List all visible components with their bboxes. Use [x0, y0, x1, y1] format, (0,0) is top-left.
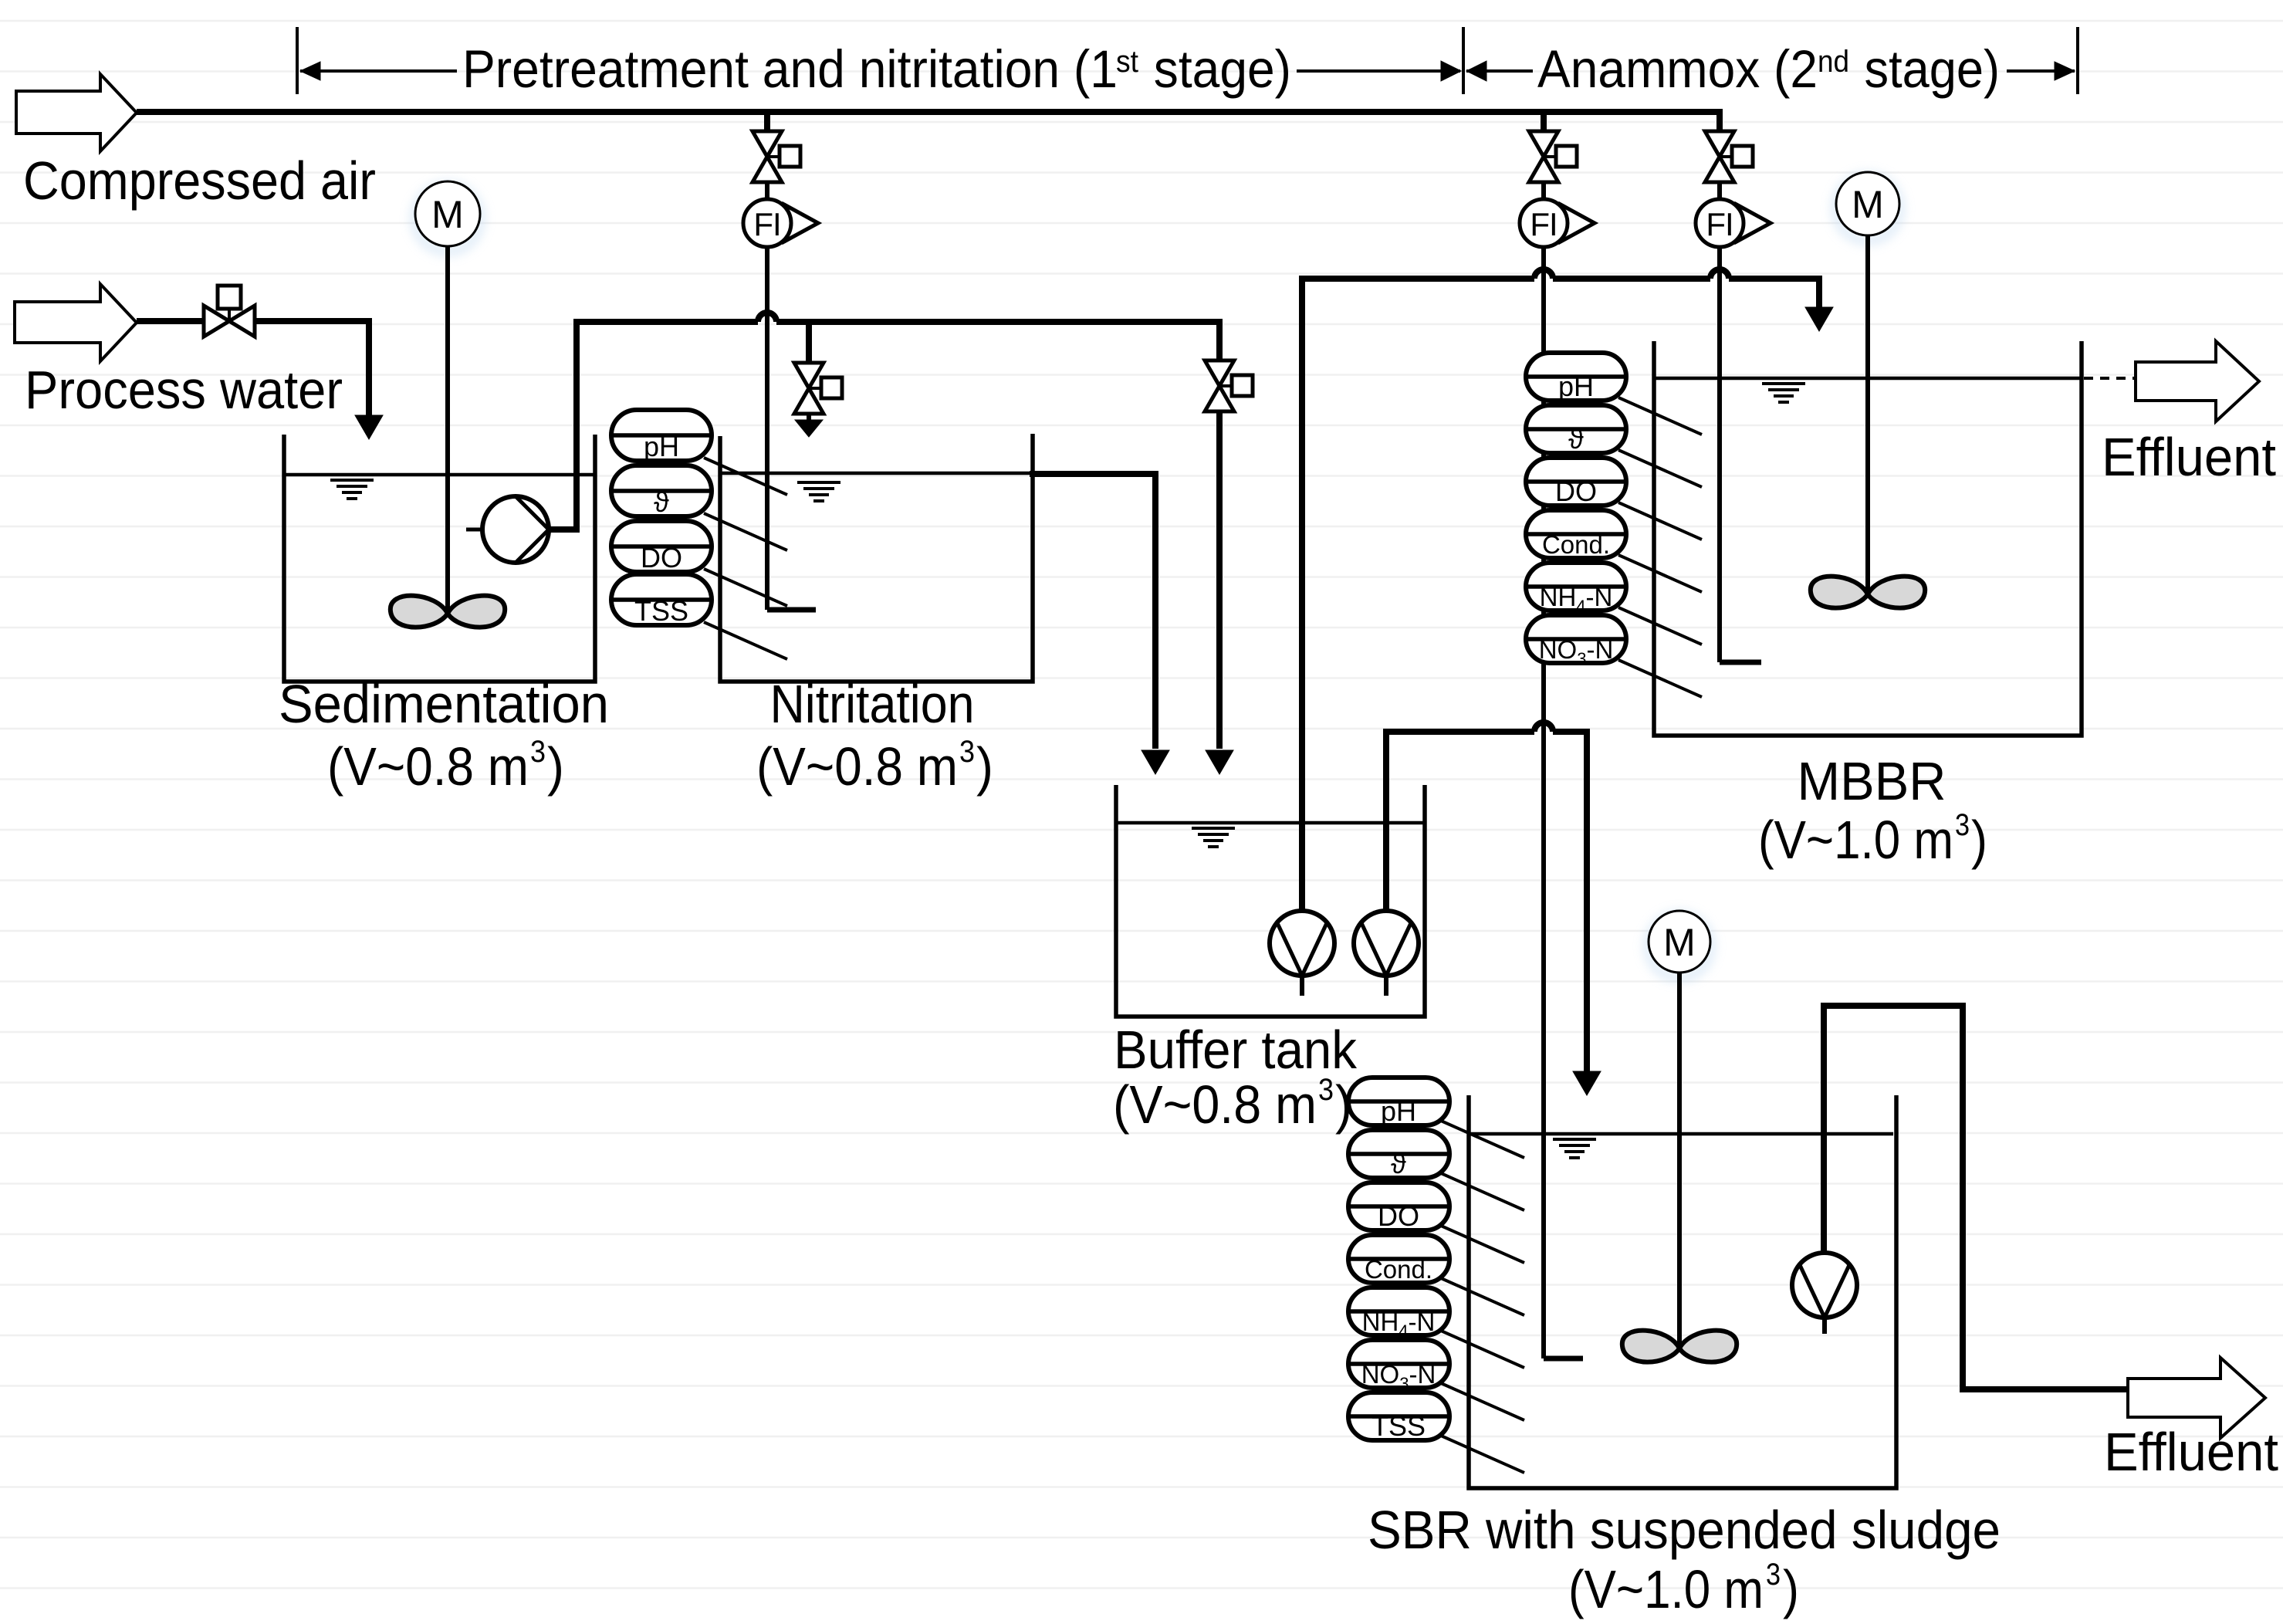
wire valve V5 down to buffer — [1216, 411, 1223, 749]
impeller mixer M3 — [1622, 1331, 1737, 1362]
svg-text:DO: DO — [641, 542, 682, 573]
svg-text:stage): stage) — [1851, 39, 2000, 99]
svg-text:M: M — [1663, 921, 1696, 964]
impeller mixer M1 — [391, 596, 505, 628]
svg-text:Effluent: Effluent — [2104, 1422, 2278, 1482]
flow indicator FI2 — [1561, 205, 1595, 242]
wire buffer pump2 riser — [1383, 735, 1389, 911]
svg-text:ϑ: ϑ — [654, 486, 669, 518]
wire valve V1 to FI1 — [765, 182, 769, 200]
svg-text:TSS: TSS — [1371, 1410, 1426, 1442]
svg-text:Cond.: Cond. — [1365, 1255, 1432, 1284]
valve V6 process water — [204, 306, 229, 337]
svg-text:ϑ: ϑ — [1568, 423, 1584, 455]
arrow into sedimentation tank — [355, 415, 383, 439]
process water inlet block arrow — [15, 284, 137, 361]
svg-text:(V~0.8 m: (V~0.8 m — [1113, 1074, 1317, 1135]
pump P3 buffer SBR-feed — [1354, 911, 1419, 976]
tank buffer water symbol — [1192, 827, 1235, 830]
effluent outlet block arrow SBR — [2128, 1358, 2265, 1438]
wire valve V6 to sedimentation — [255, 318, 372, 324]
wire valve V3 to FI3 — [1717, 182, 1722, 200]
wire SBR feed line — [1383, 729, 1534, 735]
tank nitritation walls — [720, 434, 1033, 682]
tank sedimentation water symbol — [330, 479, 374, 482]
arrow into MBBR tank — [1805, 307, 1833, 331]
svg-text:Anammox (2: Anammox (2 — [1537, 39, 1818, 99]
wire buffer pump1 feed riser — [1299, 279, 1305, 911]
flow indicator FI1 — [784, 205, 818, 242]
compressed air inlet block arrow — [16, 74, 137, 151]
sensor capsule stack nitritation (pH, theta, DO, TSS) — [611, 410, 712, 461]
wire pump P2 outlet stub — [1300, 976, 1304, 996]
shaft mixer M2 — [1865, 235, 1870, 594]
wire MBBR feed line — [1299, 276, 1534, 282]
tank buffer walls — [1116, 785, 1425, 1017]
pump P1 sedimentation — [482, 496, 549, 563]
svg-text:NH4-N: NH4-N — [1362, 1308, 1436, 1341]
svg-text:3: 3 — [959, 735, 975, 769]
svg-text:NO3-N: NO3-N — [1361, 1360, 1436, 1393]
wire SBR pump riser and crossover — [1821, 1009, 1827, 1253]
svg-text:): ) — [1971, 810, 1987, 870]
svg-text:Cond.: Cond. — [1542, 530, 1610, 559]
svg-text:Buffer tank: Buffer tank — [1114, 1020, 1358, 1080]
valve V4 nitritation feed — [794, 363, 824, 388]
sensor connection diagonals nitritation — [704, 458, 787, 495]
svg-text:M: M — [1852, 183, 1884, 226]
impeller mixer M2 — [1811, 577, 1925, 608]
wire air branch1 drop to valve — [764, 112, 770, 131]
tank sedimentation water line — [284, 473, 595, 477]
wire transfer line to nitritation and buffer — [577, 319, 758, 325]
motor M1 sedimentation — [414, 185, 481, 252]
tank nitritation water line — [720, 472, 1033, 475]
tank buffer water line — [1116, 821, 1425, 825]
svg-text:pH: pH — [1381, 1095, 1416, 1127]
svg-text:(V~1.0 m: (V~1.0 m — [1758, 810, 1953, 870]
wire compressed air corner down to valve V3 — [1716, 112, 1723, 131]
tank MBBR walls — [1654, 341, 2082, 736]
svg-text:FI: FI — [1530, 206, 1557, 242]
sensor connection diagonals SBR — [1441, 1121, 1524, 1158]
pump P4 SBR decant — [1792, 1253, 1857, 1318]
svg-text:pH: pH — [1558, 370, 1594, 402]
wire MBBR effluent dashed — [2084, 377, 2136, 380]
tank SBR water line — [1469, 1132, 1893, 1136]
sensor capsule stack SBR (pH, theta, DO, Cond., NH4-N, NO3-N, TSS) — [1348, 1078, 1449, 1125]
svg-text:M: M — [431, 193, 464, 236]
wire FI3 down into MBBR sparger — [1717, 246, 1722, 662]
valve V2 air SBR — [1529, 131, 1558, 157]
svg-text:FI: FI — [753, 206, 780, 242]
flow indicator FI3 — [1737, 205, 1771, 242]
svg-text:(V~0.8 m: (V~0.8 m — [327, 736, 529, 797]
wire pump P1 discharge riser — [549, 526, 580, 533]
arrow into buffer tank from V5 — [1206, 750, 1233, 774]
svg-text:DO: DO — [1378, 1200, 1419, 1232]
dimension tick middle — [1462, 27, 1465, 94]
wire pump P3 outlet stub — [1384, 976, 1388, 996]
tank MBBR water symbol — [1762, 382, 1805, 385]
wire compressed air main header — [137, 109, 1723, 115]
dimension tick right — [2076, 27, 2079, 94]
shaft mixer M1 — [445, 246, 450, 614]
junction bump MBBR feed over FI3 line — [1710, 269, 1729, 279]
svg-text:TSS: TSS — [634, 595, 688, 627]
junction bump SBR feed over FI2 line — [1534, 722, 1553, 732]
valve V5 buffer feed — [1205, 360, 1234, 386]
tank SBR water symbol — [1553, 1138, 1596, 1141]
tank nitritation water symbol — [797, 481, 840, 484]
dimension line stage1 right segment with arrowhead — [1297, 69, 1460, 73]
svg-text:(V~1.0 m: (V~1.0 m — [1568, 1559, 1764, 1619]
svg-text:3: 3 — [1318, 1073, 1334, 1107]
svg-text:NH4-N: NH4-N — [1540, 583, 1613, 616]
tank sedimentation walls — [284, 435, 595, 682]
svg-text:Compressed air: Compressed air — [23, 151, 376, 211]
svg-text:Process water: Process water — [25, 360, 343, 420]
svg-text:3: 3 — [530, 735, 546, 769]
wire FI2 down to SBR sparger — [1541, 246, 1546, 1358]
pump P2 buffer MBBR-feed — [1270, 911, 1334, 976]
svg-text:Pretreatment and nitritation (: Pretreatment and nitritation (1 — [462, 39, 1118, 99]
svg-text:DO: DO — [1555, 475, 1597, 507]
decorative gridlines (not labelled individually) — [0, 20, 2283, 22]
svg-text:st: st — [1116, 45, 1138, 79]
svg-text:NO3-N: NO3-N — [1539, 635, 1614, 668]
arrow into nitritation tank — [795, 420, 823, 437]
svg-text:stage): stage) — [1140, 39, 1291, 99]
svg-text:): ) — [1783, 1559, 1799, 1619]
wire air branch2 drop to valve — [1541, 112, 1547, 131]
dimension line stage2 right segment with arrowhead — [2007, 69, 2075, 73]
motor M2 MBBR — [1835, 176, 1900, 241]
tank SBR walls — [1469, 1095, 1896, 1488]
svg-text:3: 3 — [1955, 808, 1970, 842]
svg-text:nd: nd — [1818, 45, 1849, 79]
svg-text:Sedimentation: Sedimentation — [279, 674, 609, 734]
svg-text:pH: pH — [644, 431, 679, 462]
sensor capsule stack MBBR (pH, theta, DO, Cond., NH4-N, NO3-N) — [1526, 353, 1626, 401]
wire process water to valve — [137, 318, 204, 324]
svg-text:ϑ: ϑ — [1391, 1148, 1406, 1179]
junction bump transfer over air line — [758, 313, 776, 322]
dimension line stage2 left segment with arrowhead — [1466, 69, 1533, 73]
valve V1 air nitritation — [753, 131, 782, 157]
wire nitritation overflow — [1030, 471, 1158, 477]
svg-text:3: 3 — [1766, 1558, 1781, 1592]
svg-text:(V~0.8 m: (V~0.8 m — [756, 736, 958, 797]
wire valve V2 to FI2 — [1541, 182, 1546, 200]
tank MBBR water line — [1654, 377, 2082, 381]
arrow into buffer tank from nitritation — [1141, 750, 1169, 774]
svg-text:): ) — [547, 736, 564, 797]
wire pump P4 lower stub — [1822, 1318, 1827, 1334]
svg-text:SBR with suspended sludge: SBR with suspended sludge — [1368, 1500, 2001, 1560]
svg-text:FI: FI — [1706, 206, 1733, 242]
dimension line stage1 left segment with arrowhead — [300, 69, 457, 73]
arrow into SBR tank — [1573, 1071, 1601, 1095]
wire branch down to valve V4 — [806, 322, 812, 363]
svg-text:Nitritation: Nitritation — [770, 674, 975, 734]
svg-text:): ) — [976, 736, 993, 797]
junction bump MBBR feed over FI2 line — [1534, 269, 1553, 279]
valve V3 air MBBR — [1705, 131, 1734, 157]
svg-text:Effluent: Effluent — [2102, 427, 2276, 487]
wire pump P1 suction stub — [466, 528, 482, 532]
shaft mixer M3 — [1677, 973, 1682, 1348]
wire valve V4 short drop — [807, 414, 811, 424]
effluent outlet block arrow MBBR — [2136, 341, 2259, 421]
motor M3 SBR — [1648, 915, 1711, 978]
wire transfer corner down to valve V5 — [1216, 322, 1223, 360]
dimension tick left — [296, 27, 299, 94]
svg-text:MBBR: MBBR — [1798, 751, 1946, 811]
sensor connection diagonals MBBR — [1618, 398, 1702, 435]
wire FI1 down into nitritation sparger — [765, 246, 769, 610]
